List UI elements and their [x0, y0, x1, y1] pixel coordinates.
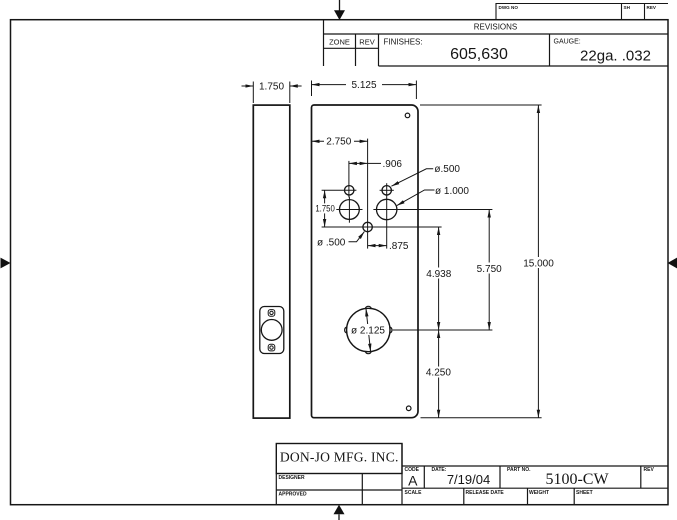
svg-text:SHEET: SHEET	[576, 490, 593, 496]
rosette on edge view	[260, 307, 284, 354]
centering mark top	[334, 0, 345, 20]
hole E: center 0.500 deadbolt hole	[322, 139, 442, 249]
svg-text:REV: REV	[644, 467, 655, 473]
svg-text:SH: SH	[624, 5, 631, 10]
svg-text:ø .500: ø .500	[317, 238, 346, 249]
svg-text:GAUGE:: GAUGE:	[554, 38, 581, 45]
svg-text:REV: REV	[647, 5, 657, 10]
svg-text:5.750: 5.750	[477, 264, 502, 275]
leader + label diameter .500 (top right)	[391, 169, 433, 186]
leader + label diameter 1.000	[397, 190, 435, 206]
leader + label diameter .500 (deadbolt, lower left)	[349, 232, 365, 242]
svg-text:DATE:: DATE:	[432, 467, 447, 473]
company box DON-JO MFG. INC.	[276, 444, 402, 474]
svg-text:SCALE: SCALE	[405, 490, 423, 496]
centering mark left	[1, 258, 11, 269]
svg-text:APPROVED: APPROVED	[279, 492, 307, 498]
revisions block lines	[324, 20, 669, 66]
designer / approved rows	[276, 444, 402, 505]
svg-text:ø.500: ø.500	[434, 164, 460, 175]
svg-text:5100-CW: 5100-CW	[545, 471, 609, 488]
dimension 1.750 (edge view width)	[242, 82, 302, 104]
centering mark right	[668, 258, 677, 269]
svg-text:ø 2.125: ø 2.125	[351, 325, 385, 336]
main plate outline	[312, 105, 419, 418]
hole F: 2.125 cross-bore hole with lobes	[345, 306, 493, 353]
dimension 1.750 (vertical, holes)	[324, 190, 326, 227]
svg-text:FINISHES:: FINISHES:	[384, 37, 423, 46]
svg-text:1.750: 1.750	[259, 82, 284, 93]
svg-text:22ga. .032: 22ga. .032	[580, 47, 651, 64]
svg-text:A: A	[408, 472, 418, 488]
svg-text:15.000: 15.000	[523, 258, 554, 269]
svg-text:ZONE: ZONE	[329, 38, 350, 47]
top margin strip (DWG NO / SH / REV)	[496, 4, 668, 20]
svg-text:5.125: 5.125	[351, 80, 376, 91]
svg-text:.875: .875	[389, 241, 409, 252]
dimension 15.000	[420, 105, 542, 418]
svg-text:DESIGNER: DESIGNER	[279, 475, 306, 481]
svg-text:2.750: 2.750	[326, 137, 351, 148]
svg-text:REV: REV	[359, 38, 374, 47]
edge view rectangle (side view of plate)	[253, 105, 289, 418]
svg-text:7/19/04: 7/19/04	[447, 472, 490, 487]
svg-text:RELEASE DATE: RELEASE DATE	[466, 490, 505, 496]
hole C: left 1.000 hole	[336, 197, 362, 223]
hole A: upper-left 0.500 hole	[322, 161, 357, 198]
centering mark bottom	[334, 505, 345, 520]
dimension .875	[368, 245, 387, 247]
svg-text:1.750: 1.750	[315, 204, 335, 215]
dimension 4.250	[438, 330, 440, 418]
svg-text:DON-JO MFG. INC.: DON-JO MFG. INC.	[280, 450, 399, 465]
svg-text:4.250: 4.250	[426, 368, 451, 379]
svg-text:PART NO.: PART NO.	[507, 467, 531, 473]
dimension 4.938	[438, 227, 440, 330]
screw hole bottom right	[406, 406, 411, 411]
screw hole top right	[405, 113, 410, 118]
svg-text:REVISIONS: REVISIONS	[474, 23, 518, 32]
svg-text:DWG NO: DWG NO	[499, 5, 519, 10]
svg-text:WEIGHT: WEIGHT	[529, 490, 549, 496]
dimension 5.125 (plate width)	[312, 81, 417, 100]
dimension 2.750	[312, 140, 368, 142]
svg-text:ø 1.000: ø 1.000	[435, 186, 469, 197]
hole D: right 1.000 hole	[373, 199, 492, 219]
svg-text:605,630: 605,630	[450, 46, 508, 63]
title block code/date/part rows	[402, 466, 668, 505]
hole B: upper-right 0.500 hole	[380, 183, 394, 248]
dimension 5.750	[488, 210, 490, 331]
svg-text:.906: .906	[383, 159, 403, 170]
svg-text:4.938: 4.938	[426, 269, 451, 280]
revisions block text	[329, 23, 651, 65]
dimension .906	[349, 162, 381, 164]
